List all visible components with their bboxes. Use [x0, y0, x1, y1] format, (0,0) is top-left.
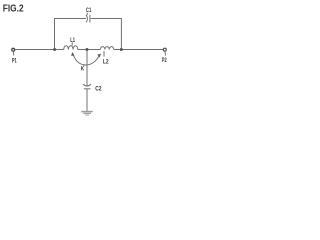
svg-text:P1: P1: [12, 57, 17, 64]
svg-text:L2: L2: [103, 59, 109, 66]
svg-text:C1: C1: [86, 7, 92, 14]
svg-text:C2: C2: [95, 85, 101, 92]
svg-text:K: K: [81, 66, 84, 73]
svg-text:P2: P2: [162, 57, 167, 64]
svg-text:L1: L1: [70, 37, 75, 44]
svg-text:FIG.2: FIG.2: [3, 4, 24, 15]
